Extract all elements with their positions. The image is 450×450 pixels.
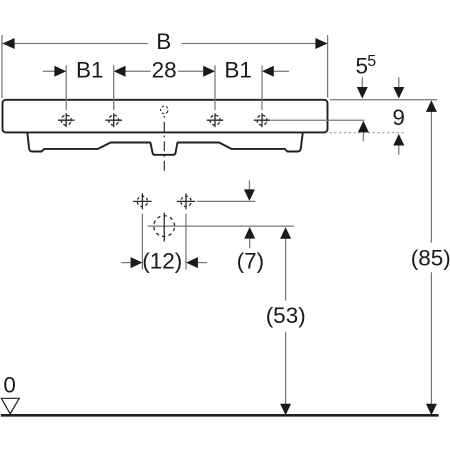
- svg-text:(12): (12): [142, 248, 182, 273]
- svg-text:9: 9: [392, 105, 405, 130]
- svg-text:B1: B1: [224, 57, 252, 82]
- svg-text:0: 0: [3, 373, 16, 398]
- svg-text:28: 28: [152, 57, 177, 82]
- svg-text:B: B: [156, 29, 171, 54]
- svg-text:(7): (7): [237, 249, 265, 274]
- svg-text:5: 5: [367, 53, 376, 70]
- svg-text:(85): (85): [411, 246, 450, 271]
- svg-text:(53): (53): [266, 303, 306, 328]
- svg-text:B1: B1: [76, 57, 104, 82]
- svg-text:5: 5: [356, 53, 369, 78]
